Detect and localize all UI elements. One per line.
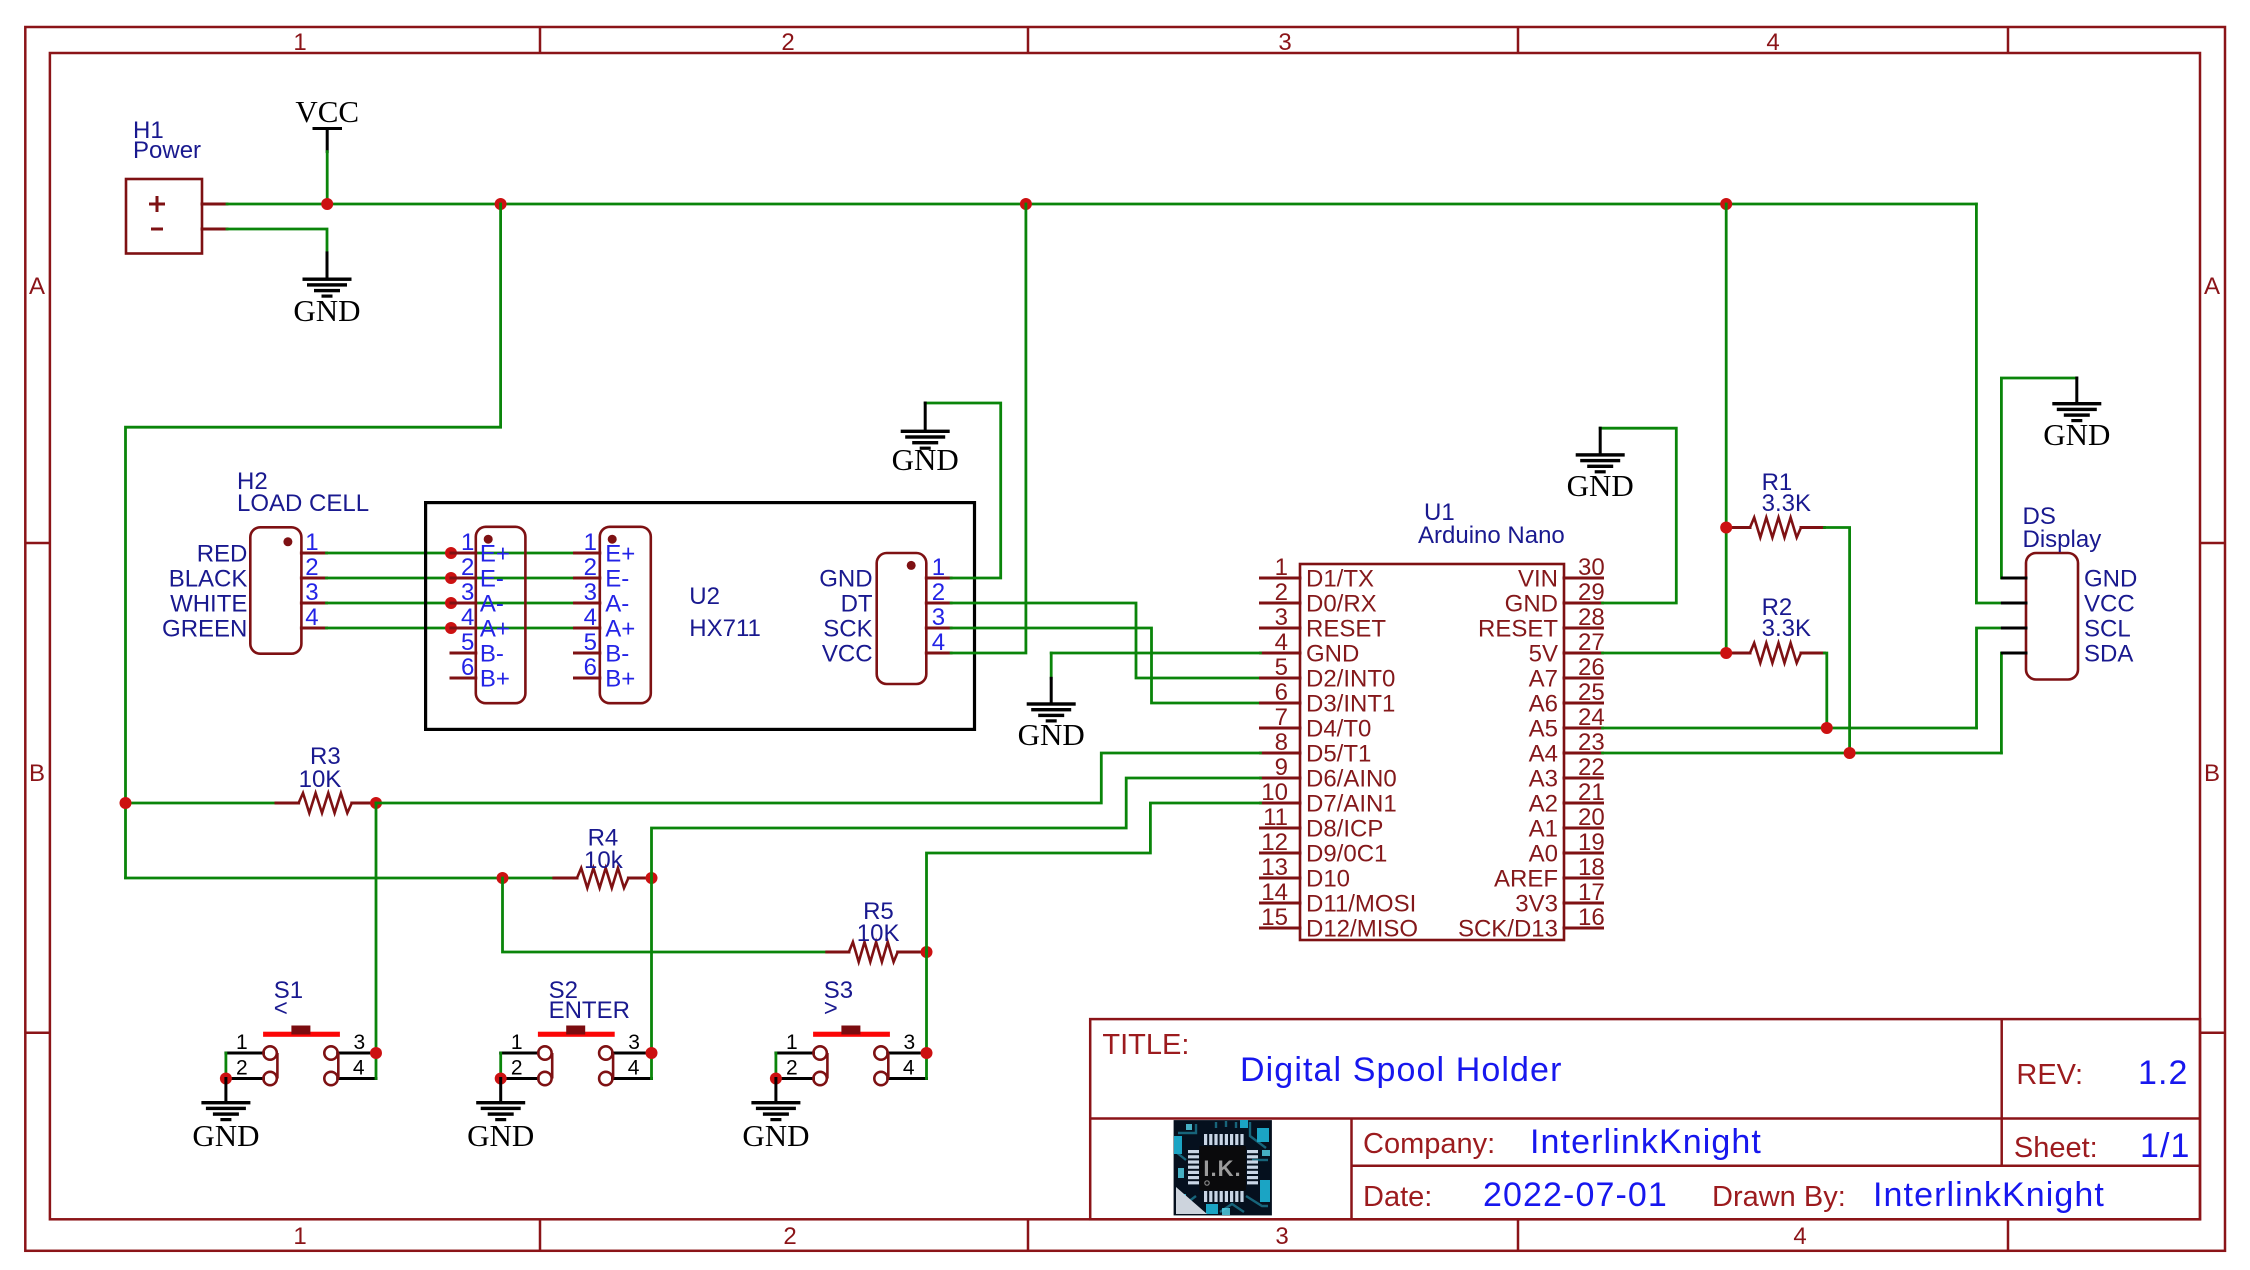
svg-text:3: 3 [1278, 29, 1291, 56]
svg-text:3: 3 [354, 1031, 366, 1054]
svg-text:A-: A- [480, 591, 504, 618]
svg-text:22: 22 [1578, 754, 1605, 781]
wire display SDA riser [2001, 653, 2002, 753]
svg-text:1: 1 [305, 529, 318, 556]
switch S1 < [226, 1026, 376, 1086]
svg-text:2: 2 [1275, 579, 1288, 606]
svg-text:HX711: HX711 [689, 615, 761, 642]
svg-text:2: 2 [781, 29, 794, 56]
svg-text:Display: Display [2023, 526, 2102, 553]
svg-text:4: 4 [305, 604, 318, 631]
junction node S1 pin2 [220, 1073, 232, 1085]
junction node E- row [445, 572, 457, 584]
title block sheet cell bottom divider [1352, 1164, 2201, 1167]
svg-text:3: 3 [1275, 604, 1288, 631]
resistor R5 10K [827, 942, 927, 962]
H1 pin 1 stub [202, 203, 227, 206]
svg-text:WHITE: WHITE [170, 591, 247, 618]
svg-text:Power: Power [133, 137, 201, 164]
title block outline [1090, 1019, 2200, 1219]
U2 connector J1 first pin marker [484, 535, 493, 544]
svg-text:GND: GND [892, 442, 959, 477]
wire VCC stem to rail [326, 152, 329, 204]
resistor R4 10k [554, 868, 652, 888]
wire H2 pin3 to HX711 A- [327, 602, 575, 605]
U1 right pin numbers [1578, 554, 1605, 931]
svg-text:RESET: RESET [1478, 616, 1558, 643]
resistor R2 3.3K [1726, 643, 1824, 663]
wire R4 down to S2 pin3 [650, 878, 653, 1053]
svg-text:3: 3 [1275, 1223, 1288, 1250]
connector DS Display body [2026, 553, 2078, 680]
svg-text:D7/AIN1: D7/AIN1 [1306, 791, 1397, 818]
wire R3 to U1 pin8 stair [376, 753, 1261, 803]
wire U2 GND pin up to ground [925, 403, 1001, 578]
svg-text:U2: U2 [689, 583, 720, 610]
wire U1 pin29 GND to ground [1600, 428, 1676, 603]
ground symbol under S2 [467, 1079, 534, 1154]
row tick right 1 [2200, 542, 2225, 545]
ground symbol under H1 [293, 253, 360, 328]
svg-text:A: A [2204, 273, 2220, 300]
U2 connector J1 body [476, 527, 526, 703]
svg-text:10K: 10K [299, 766, 342, 793]
svg-text:GREEN: GREEN [162, 616, 247, 643]
svg-text:A2: A2 [1529, 791, 1558, 818]
wire rail to display VCC [1976, 204, 2002, 603]
svg-text:GND: GND [192, 1118, 259, 1153]
wire display GND to ground [2001, 378, 2076, 578]
column tick top 4 [2007, 27, 2010, 53]
svg-text:10k: 10k [584, 847, 624, 874]
svg-text:InterlinkKnight: InterlinkKnight [1530, 1123, 1762, 1161]
svg-text:3: 3 [461, 579, 474, 606]
wire S3 pins 1-2 tie [775, 1053, 778, 1079]
svg-text:2022-07-01: 2022-07-01 [1483, 1176, 1668, 1214]
wire H2 pin4 to HX711 A+ [327, 627, 575, 630]
U1 left pin stubs 1-15 [1261, 578, 1301, 928]
U1 left pin names [1306, 566, 1418, 943]
svg-text:D1/TX: D1/TX [1306, 566, 1374, 593]
wire R1 to SDA net [1824, 528, 1849, 754]
resistor R1 3.3K [1726, 518, 1824, 538]
svg-text:1: 1 [584, 529, 597, 556]
svg-text:VIN: VIN [1518, 566, 1558, 593]
wire display SCL riser [1977, 628, 2003, 728]
wire R5 down to S3 pin3 [925, 952, 928, 1053]
wire S2 pins 1-2 tie [499, 1053, 502, 1079]
svg-text:3: 3 [584, 579, 597, 606]
U2 connector J3 first pin marker [907, 561, 916, 570]
svg-text:5: 5 [461, 629, 474, 656]
ground symbol near U1 pin29 [1567, 428, 1634, 503]
U2 connector J2 body [600, 527, 651, 703]
svg-text:Arduino Nano: Arduino Nano [1418, 522, 1565, 549]
svg-text:SCK: SCK [823, 616, 872, 643]
svg-text:5: 5 [1275, 654, 1288, 681]
H1 pin 2 stub [202, 228, 227, 231]
svg-text:1: 1 [786, 1031, 798, 1054]
logo I.K. circuit board image [1174, 1120, 1272, 1215]
svg-text:A7: A7 [1529, 666, 1558, 693]
junction node rail at x500 [495, 198, 507, 210]
svg-text:B: B [29, 760, 45, 787]
svg-text:27: 27 [1578, 629, 1605, 656]
wire U2 DT to U1 D2/INT0 [951, 603, 1260, 678]
ground symbol above U2 [892, 403, 959, 477]
svg-text:5: 5 [584, 629, 597, 656]
row tick right 2 [2200, 1031, 2225, 1034]
VCC power symbol [295, 94, 359, 152]
row tick left 1 [25, 542, 50, 545]
svg-text:3: 3 [628, 1031, 640, 1054]
svg-text:Date:: Date: [1363, 1181, 1432, 1213]
ground symbol under S1 [192, 1079, 259, 1154]
junction node S2 pin3 [646, 1047, 658, 1059]
svg-text:D3/INT1: D3/INT1 [1306, 691, 1395, 718]
svg-text:SCK/D13: SCK/D13 [1458, 916, 1558, 943]
junction node R4 left [497, 872, 509, 884]
svg-text:3: 3 [932, 604, 945, 631]
svg-text:A4: A4 [1529, 741, 1558, 768]
svg-text:A1: A1 [1529, 816, 1558, 843]
svg-text:E+: E+ [605, 541, 635, 568]
wire U1 A5 pin24 SCL net [1603, 727, 1977, 730]
junction node rail at U2 VCC column [1020, 198, 1032, 210]
svg-text:D9/0C1: D9/0C1 [1306, 841, 1387, 868]
svg-text:2: 2 [786, 1057, 798, 1080]
wire S2 pins 3-4 tie [650, 1053, 653, 1079]
svg-text:GND: GND [1567, 468, 1634, 503]
H2 pin 1 stub [301, 552, 326, 555]
svg-text:E-: E- [605, 566, 629, 593]
svg-text:VCC: VCC [295, 94, 359, 129]
svg-text:GND: GND [2084, 566, 2137, 593]
svg-text:GND: GND [293, 293, 360, 328]
svg-text:GND: GND [742, 1118, 809, 1153]
svg-text:GND: GND [1505, 591, 1558, 618]
junction node rail at R1 column [1720, 198, 1732, 210]
U1 left pin numbers [1261, 554, 1288, 931]
svg-text:4: 4 [903, 1057, 915, 1080]
H2 first pin marker [283, 537, 292, 546]
svg-text:6: 6 [584, 654, 597, 681]
svg-text:10K: 10K [857, 920, 900, 947]
wire rail down to resistor feed [126, 204, 501, 878]
svg-text:20: 20 [1578, 804, 1605, 831]
column tick bottom 2 [1027, 1219, 1030, 1251]
title block REV column divider [2000, 1019, 2003, 1166]
svg-text:26: 26 [1578, 654, 1605, 681]
svg-text:10: 10 [1261, 779, 1288, 806]
junction node R4 right [646, 872, 658, 884]
svg-text:4: 4 [584, 604, 597, 631]
U2 J3 pin numbers [932, 554, 945, 656]
svg-text:19: 19 [1578, 829, 1605, 856]
svg-text:18: 18 [1578, 854, 1605, 881]
svg-text:B+: B+ [480, 666, 510, 693]
svg-text:1: 1 [1275, 554, 1288, 581]
junction node S3 pin2 [770, 1073, 782, 1085]
U2 J2 pin names [605, 541, 635, 693]
wire R5 feed drop [503, 878, 827, 952]
svg-text:D8/ICP: D8/ICP [1306, 816, 1383, 843]
svg-text:3V3: 3V3 [1515, 891, 1558, 918]
svg-text:17: 17 [1578, 879, 1605, 906]
H2 pin 4 stub [301, 627, 326, 630]
H1 plus sign [149, 196, 165, 212]
svg-text:8: 8 [1275, 729, 1288, 756]
wire S1 pins 1-2 tie [224, 1053, 227, 1079]
ground symbol top right [2043, 378, 2110, 452]
column tick top 1 [539, 27, 542, 53]
svg-text:1: 1 [932, 554, 945, 581]
svg-text:AREF: AREF [1494, 866, 1558, 893]
svg-text:7: 7 [1275, 704, 1288, 731]
svg-text:4: 4 [353, 1057, 365, 1080]
svg-text:Drawn By:: Drawn By: [1712, 1181, 1846, 1213]
svg-text:DT: DT [841, 591, 873, 618]
svg-text:D6/AIN0: D6/AIN0 [1306, 766, 1397, 793]
svg-text:Sheet:: Sheet: [2014, 1132, 2098, 1164]
U2 J1 pin names [480, 541, 510, 693]
U2 J1 pin stubs [451, 553, 476, 678]
svg-text:11: 11 [1263, 804, 1288, 831]
module U2 HX711 outline [426, 503, 975, 730]
U2 connector J3 body [877, 553, 927, 684]
column tick bottom 3 [1517, 1219, 1520, 1251]
U1 right pin names [1458, 566, 1558, 943]
svg-text:4: 4 [461, 604, 474, 631]
svg-text:29: 29 [1578, 579, 1605, 606]
svg-text:21: 21 [1578, 779, 1605, 806]
wire R5 to U1 pin10 stair [927, 803, 1261, 952]
svg-text:E+: E+ [480, 541, 510, 568]
wire main VCC rail [227, 203, 1976, 206]
switch S2 ENTER [501, 1026, 652, 1086]
svg-text:4: 4 [628, 1057, 640, 1080]
DS pin stubs [2002, 578, 2026, 653]
svg-text:InterlinkKnight: InterlinkKnight [1873, 1176, 2105, 1214]
svg-text:2: 2 [236, 1057, 248, 1080]
junction node R1 on SDA [1844, 747, 1856, 759]
junction node R2 on SCL [1821, 722, 1833, 734]
svg-text:3.3K: 3.3K [1762, 615, 1811, 642]
wire R3 down to S1 pin3 [375, 803, 378, 1053]
svg-text:A5: A5 [1529, 716, 1558, 743]
wire U1 GND pin4 to ground [1051, 652, 1260, 655]
svg-text:B: B [2204, 760, 2220, 787]
resistor R3 10K [276, 793, 376, 813]
junction node S2 pin2 [495, 1073, 507, 1085]
svg-text:B+: B+ [605, 666, 635, 693]
wire U2 VCC pin to rail [951, 204, 1026, 653]
junction node E+ row [445, 547, 457, 559]
wire S1 pins 3-4 tie [375, 1053, 378, 1079]
switch S3 > [776, 1026, 927, 1086]
svg-text:D10: D10 [1306, 866, 1350, 893]
column tick top 3 [1517, 27, 1520, 53]
svg-text:GND: GND [1018, 717, 1085, 752]
U2 J1 pin numbers [461, 529, 474, 681]
column tick top 2 [1027, 27, 1030, 53]
svg-text:SDA: SDA [2084, 641, 2133, 668]
wire drop to ground below U2 [1050, 653, 1053, 678]
svg-text:3.3K: 3.3K [1762, 490, 1811, 517]
svg-text:1: 1 [293, 1223, 306, 1250]
IC U1 Arduino Nano body [1300, 564, 1564, 940]
svg-text:LOAD CELL: LOAD CELL [237, 490, 369, 517]
svg-text:2: 2 [584, 554, 597, 581]
svg-text:I.K.: I.K. [1203, 1156, 1241, 1181]
svg-text:1: 1 [236, 1031, 248, 1054]
U2 connector J2 first pin marker [608, 535, 617, 544]
connector H1 Power body [126, 179, 202, 254]
svg-text:1: 1 [293, 29, 306, 56]
wire VCC rail vertical to R1 R2 [1725, 204, 1728, 653]
svg-text:4: 4 [1766, 29, 1779, 56]
svg-text:A: A [29, 273, 45, 300]
title block logo cell divider [1350, 1119, 1353, 1220]
svg-text:D0/RX: D0/RX [1306, 591, 1377, 618]
svg-text:2: 2 [783, 1223, 796, 1250]
svg-text:9: 9 [1275, 754, 1288, 781]
svg-text:D2/INT0: D2/INT0 [1306, 666, 1395, 693]
junction node R1 left [1720, 522, 1732, 534]
svg-text:D12/MISO: D12/MISO [1306, 916, 1418, 943]
svg-text:D11/MOSI: D11/MOSI [1306, 891, 1416, 918]
svg-text:RED: RED [197, 541, 248, 568]
svg-text:REV:: REV: [2016, 1059, 2083, 1091]
junction node rail at VCC [321, 198, 333, 210]
wire H2 pin2 to HX711 E- [327, 577, 575, 580]
wire U1 A4 pin23 SDA net [1603, 752, 2002, 755]
svg-text:4: 4 [932, 629, 945, 656]
svg-text:2: 2 [932, 579, 945, 606]
svg-text:23: 23 [1578, 729, 1605, 756]
svg-text:1: 1 [511, 1031, 523, 1054]
svg-text:16: 16 [1578, 904, 1605, 931]
svg-text:GND: GND [819, 566, 872, 593]
U2 J2 pin stubs [575, 553, 600, 678]
svg-text:RESET: RESET [1306, 616, 1386, 643]
svg-text:3: 3 [904, 1031, 916, 1054]
svg-text:4: 4 [1275, 629, 1288, 656]
svg-text:VCC: VCC [822, 641, 873, 668]
row tick left 2 [25, 1031, 50, 1034]
wire U1 5V pin27 to R1 R2 column [1603, 652, 1727, 655]
wire R3 row to U1 D5/T1 [126, 802, 277, 805]
svg-text:6: 6 [461, 654, 474, 681]
svg-text:24: 24 [1578, 704, 1605, 731]
connector H2 LOAD CELL body [250, 527, 301, 653]
svg-text:4: 4 [1793, 1223, 1806, 1250]
column tick bottom 4 [2007, 1219, 2010, 1251]
svg-text:Company:: Company: [1363, 1128, 1495, 1160]
svg-text:Digital Spool Holder: Digital Spool Holder [1240, 1051, 1563, 1089]
wire H2 pin1 to HX711 E+ [327, 552, 575, 555]
svg-text:3: 3 [305, 579, 318, 606]
title block divider under TITLE row [1090, 1117, 2200, 1120]
H2 pin 3 stub [301, 602, 326, 605]
svg-text:2: 2 [511, 1057, 523, 1080]
column tick bottom 1 [539, 1219, 542, 1251]
H2 pin 2 stub [301, 577, 326, 580]
svg-text:GND: GND [2043, 417, 2110, 452]
svg-text:A3: A3 [1529, 766, 1558, 793]
svg-text:6: 6 [1275, 679, 1288, 706]
junction node R3 left [120, 797, 132, 809]
junction node A+ row [445, 622, 457, 634]
wire R2 to SCL net [1824, 653, 1826, 728]
junction node S3 pin3 [921, 1047, 933, 1059]
svg-text:28: 28 [1578, 604, 1605, 631]
wire H1 minus to GND [227, 229, 327, 253]
svg-text:BLACK: BLACK [169, 566, 248, 593]
svg-text:1.2: 1.2 [2138, 1054, 2189, 1092]
svg-text:A+: A+ [605, 616, 635, 643]
svg-text:1: 1 [461, 529, 474, 556]
svg-text:B-: B- [480, 641, 504, 668]
svg-text:15: 15 [1261, 904, 1288, 931]
svg-text:ENTER: ENTER [549, 997, 630, 1024]
svg-text:D4/T0: D4/T0 [1306, 716, 1371, 743]
ground symbol below U2 [1018, 678, 1085, 752]
svg-text:GND: GND [467, 1118, 534, 1153]
svg-text:12: 12 [1261, 829, 1288, 856]
svg-text:B-: B- [605, 641, 629, 668]
svg-text:A-: A- [605, 591, 629, 618]
junction node A- row [445, 597, 457, 609]
svg-text:2: 2 [305, 554, 318, 581]
junction node R5 right [921, 946, 933, 958]
svg-text:30: 30 [1578, 554, 1605, 581]
wire R4 to U1 pin9 stair [652, 778, 1261, 878]
wire U2 SCK to U1 D3/INT1 [951, 628, 1260, 703]
svg-text:A0: A0 [1529, 841, 1558, 868]
svg-text:SCL: SCL [2084, 616, 2131, 643]
svg-text:D5/T1: D5/T1 [1306, 741, 1371, 768]
svg-text:<: < [274, 995, 288, 1022]
svg-text:13: 13 [1261, 854, 1288, 881]
svg-text:2: 2 [461, 554, 474, 581]
wire R4 feed row [126, 877, 554, 880]
svg-text:VCC: VCC [2084, 591, 2135, 618]
svg-text:25: 25 [1578, 679, 1605, 706]
svg-text:>: > [824, 995, 838, 1022]
junction node R3 right [370, 797, 382, 809]
junction node R2 left [1720, 647, 1732, 659]
svg-text:E-: E- [480, 566, 504, 593]
svg-text:A+: A+ [480, 616, 510, 643]
U1 right pin stubs 30-16 [1564, 578, 1603, 928]
H1 minus sign [151, 228, 163, 231]
svg-text:1/1: 1/1 [2140, 1127, 2191, 1165]
svg-text:14: 14 [1261, 879, 1288, 906]
wire S3 pins 3-4 tie [925, 1053, 928, 1079]
U2 J3 pin stubs [926, 578, 951, 653]
U2 J2 pin numbers [584, 529, 597, 681]
svg-text:GND: GND [1306, 641, 1359, 668]
junction node S1 pin3 [370, 1047, 382, 1059]
svg-text:A6: A6 [1529, 691, 1558, 718]
svg-text:TITLE:: TITLE: [1102, 1029, 1189, 1061]
ground symbol under S3 [742, 1079, 809, 1154]
svg-text:5V: 5V [1529, 641, 1558, 668]
